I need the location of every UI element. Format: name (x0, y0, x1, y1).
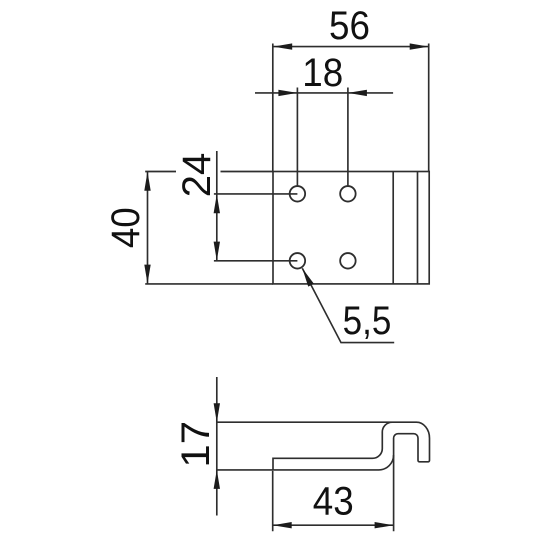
svg-text:40: 40 (104, 207, 149, 248)
svg-text:56: 56 (329, 3, 370, 48)
svg-text:5,5: 5,5 (343, 298, 392, 343)
svg-text:43: 43 (313, 479, 354, 524)
svg-text:24: 24 (175, 153, 219, 198)
svg-text:17: 17 (173, 421, 218, 468)
svg-text:18: 18 (302, 51, 343, 96)
